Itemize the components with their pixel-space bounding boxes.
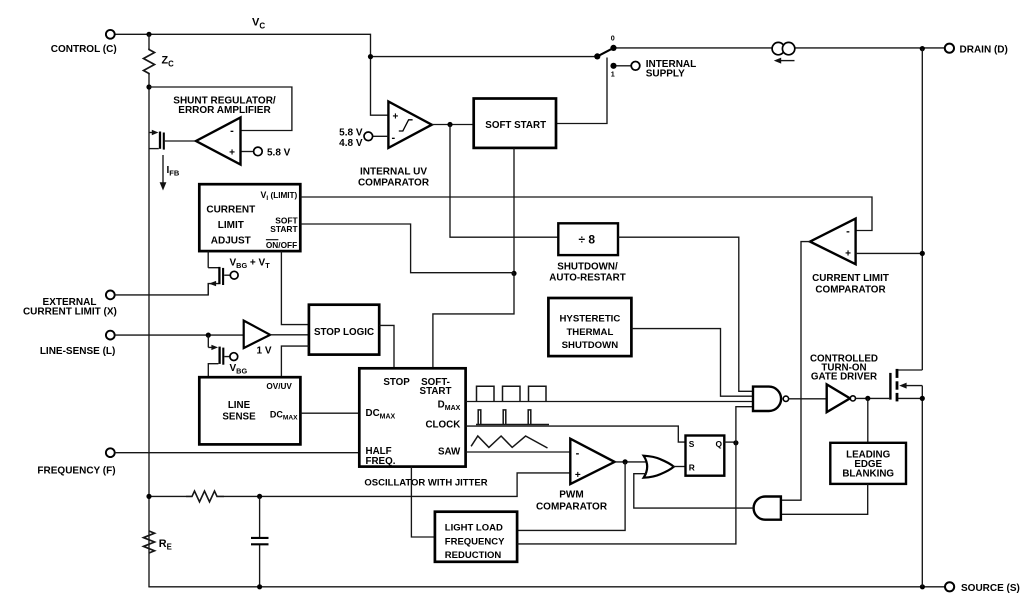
- svg-text:CURRENT LIMIT: CURRENT LIMIT: [812, 273, 889, 284]
- label CURRENT LIMIT COMPARATOR: [812, 273, 889, 295]
- wire SAW output to PWM comparator minus input: [466, 451, 571, 453]
- svg-text:SAW: SAW: [438, 446, 461, 457]
- wire drain vertical line: [921, 49, 923, 587]
- block LIGHT LOAD FREQUENCY REDUCTION: [435, 512, 517, 562]
- svg-text:SOFT START: SOFT START: [485, 120, 546, 131]
- node junction PWM output: [623, 459, 628, 464]
- wire bottom source rail: [148, 586, 945, 588]
- wire gate node down to leading edge blanking: [867, 398, 869, 442]
- svg-text:OV/UV: OV/UV: [266, 382, 292, 391]
- value label 5.8 V / 4.8 V: [339, 127, 363, 149]
- node VC junction above UV comparator: [368, 54, 373, 59]
- wire PWM comparator output to OR gate: [615, 461, 647, 463]
- wire LINE-SENSE to 1V buffer: [115, 334, 244, 336]
- block CURRENT LIMIT ADJUST: [199, 184, 300, 251]
- svg-text:ERROR AMPLIFIER: ERROR AMPLIFIER: [178, 105, 271, 116]
- op-amp PWM comparator: [570, 439, 614, 484]
- svg-text:0: 0: [611, 34, 615, 43]
- wire feedback from junction around text to op-amp minus input: [149, 87, 292, 131]
- wire DCMAX line sense to oscillator: [300, 412, 359, 414]
- svg-text:LIMIT: LIMIT: [218, 220, 244, 231]
- svg-text:STOP LOGIC: STOP LOGIC: [314, 327, 374, 338]
- latch SR flip-flop: [686, 436, 725, 476]
- wire soft-start junction down to oscillator SOFT-START input: [433, 273, 514, 368]
- block STOP LOGIC: [309, 305, 379, 355]
- wire UV comparator output to SOFT START box: [432, 124, 474, 126]
- pin LINE-SENSE (L): [40, 331, 116, 357]
- wire leading edge blanking down to AND gate input: [781, 484, 868, 514]
- node junction MOSFET source: [920, 396, 925, 401]
- wire op-amp plus input to 5.8V reference: [241, 151, 255, 153]
- svg-text:FREQUENCY: FREQUENCY: [445, 536, 505, 547]
- svg-text:INTERNAL UV: INTERNAL UV: [360, 167, 427, 178]
- wire EXTERNAL CURRENT LIMIT to VBG+VT MOSFET source: [115, 284, 209, 295]
- block divide by 8: [558, 223, 618, 255]
- svg-text:FREQUENCY (F): FREQUENCY (F): [37, 466, 115, 477]
- node junction gate drive: [865, 396, 870, 401]
- svg-text:PWM: PWM: [559, 490, 583, 501]
- node junction control line / filter line: [146, 494, 151, 499]
- resistor filter (horizontal): [186, 491, 224, 502]
- svg-text:REDUCTION: REDUCTION: [445, 550, 502, 561]
- resistor ZC: [144, 49, 155, 75]
- svg-text:ON/OFF: ON/OFF: [266, 240, 297, 250]
- block LEADING EDGE BLANKING: [830, 443, 906, 484]
- wire soft start output up to switch pole: [556, 58, 607, 124]
- node junction filter capacitor tap: [257, 494, 262, 499]
- label PWM COMPARATOR: [536, 490, 608, 513]
- wire SOFT START bottom to soft-start junction: [513, 148, 515, 274]
- wire UV output down to divide-by-8 block: [450, 125, 558, 238]
- pin DRAIN (D): [945, 44, 1008, 56]
- svg-text:CLOCK: CLOCK: [425, 420, 460, 431]
- wire CLOCK output to latch S input: [466, 426, 686, 442]
- svg-text:FREQ.: FREQ.: [366, 456, 396, 467]
- svg-text:HYSTERETIC: HYSTERETIC: [560, 313, 621, 324]
- svg-text:SOURCE (S): SOURCE (S): [961, 583, 1020, 594]
- svg-text:SHUTDOWN/: SHUTDOWN/: [557, 261, 618, 272]
- node INTERNAL SUPPLY terminal: [631, 62, 640, 71]
- block LINE SENSE: [199, 377, 300, 444]
- svg-text:SUPPLY: SUPPLY: [646, 69, 685, 80]
- wire bottom filter line from control line to PWM + input: [149, 473, 570, 497]
- wire switch contact 1 to internal supply terminal: [617, 65, 632, 67]
- wire AND gate output to OR gate lower input: [634, 474, 754, 508]
- svg-text:ADJUST: ADJUST: [211, 235, 251, 246]
- node junction MOSFET source to rail: [920, 584, 925, 589]
- wire VI(LIMIT) output to current limit comparator minus input: [300, 197, 872, 231]
- pin SOURCE (S): [945, 582, 1020, 594]
- block HYSTERETIC THERMAL SHUTDOWN: [548, 298, 631, 356]
- svg-text:OSCILLATOR WITH JITTER: OSCILLATOR WITH JITTER: [364, 477, 487, 488]
- svg-text:-: -: [846, 225, 850, 237]
- wire gate driver output to power MOSFET gate: [856, 397, 890, 399]
- wire OR gate output to latch R input: [673, 466, 686, 468]
- svg-text:SHUTDOWN: SHUTDOWN: [562, 340, 619, 351]
- wire divide-by-8 output to NAND gate input 1: [618, 237, 753, 391]
- node junction on LINE-SENSE wire: [206, 333, 211, 338]
- transistor line-sense VBG MOSFET: [208, 335, 237, 377]
- gate OR reset: [644, 456, 674, 478]
- node junction UV output: [447, 122, 452, 127]
- wire thermal shutdown output to NAND gate input 2: [631, 329, 753, 397]
- svg-text:-: -: [392, 132, 396, 144]
- svg-text:4.8 V: 4.8 V: [339, 138, 363, 149]
- pin EXTERNAL CURRENT LIMIT (X): [23, 291, 117, 318]
- svg-text:LINE-SENSE (L): LINE-SENSE (L): [40, 346, 116, 357]
- svg-text:VBG + VT: VBG + VT: [230, 258, 271, 271]
- resistor RE: [144, 531, 155, 553]
- svg-text:5.8 V: 5.8 V: [339, 127, 363, 138]
- svg-text:1: 1: [611, 70, 615, 79]
- svg-text:COMPARATOR: COMPARATOR: [536, 501, 608, 512]
- wire FREQUENCY to oscillator HALF FREQ input: [115, 452, 360, 454]
- svg-text:+: +: [393, 112, 399, 123]
- wire IFB current arrow: [160, 155, 167, 191]
- svg-text:COMPARATOR: COMPARATOR: [358, 177, 430, 188]
- wire current limit comparator output down to blanking AND gate: [781, 242, 810, 501]
- buffer controlled turn-on gate driver: [827, 384, 856, 412]
- svg-text:START: START: [420, 386, 452, 397]
- wire DMAX output to NAND gate: [466, 401, 753, 403]
- gate AND blanking (mirrored): [754, 497, 781, 520]
- block OSCILLATOR WITH JITTER: [359, 368, 465, 467]
- node junction drain rail: [920, 46, 925, 51]
- waveform square wave DMAX: [477, 386, 547, 401]
- wire OV/UV from line sense up to stop logic: [281, 346, 309, 377]
- node VC junction at ZC top: [146, 32, 151, 37]
- svg-text:START: START: [270, 224, 298, 234]
- svg-text:Q: Q: [715, 439, 722, 449]
- svg-text:BLANKING: BLANKING: [842, 469, 894, 480]
- svg-text:-: -: [576, 447, 580, 459]
- wire drain rail from switch to DRAIN pin: [616, 47, 945, 49]
- label INTERNAL SUPPLY: [646, 59, 697, 80]
- switch internal supply selector: [594, 34, 616, 79]
- transistor VBG+VT MOSFET: [208, 251, 238, 295]
- svg-text:LINE: LINE: [228, 400, 251, 411]
- transistor feedback MOSFET (shunt regulator): [149, 130, 164, 150]
- pin CONTROL (C): [51, 30, 117, 55]
- node 5.8V reference terminal: [254, 147, 263, 156]
- wire NAND output to gate driver buffer: [789, 398, 827, 400]
- svg-text:+: +: [575, 470, 581, 481]
- wire ON/OFF output down to stop logic: [281, 251, 309, 325]
- svg-text:CONTROL (C): CONTROL (C): [51, 44, 117, 55]
- svg-text:LIGHT LOAD: LIGHT LOAD: [445, 522, 503, 533]
- label CONTROLLED TURN-ON GATE DRIVER: [810, 354, 878, 383]
- wire VC top rail from CONTROL pin to switch pole: [115, 34, 596, 56]
- transistor power MOSFET output: [890, 369, 922, 402]
- svg-text:AUTO-RESTART: AUTO-RESTART: [549, 273, 625, 284]
- wire Q up to NAND gate input 4: [736, 407, 753, 443]
- svg-text:5.8 V: 5.8 V: [267, 147, 291, 158]
- svg-text:R: R: [689, 463, 695, 473]
- wire op-amp output to feedback MOSFET gate: [165, 140, 196, 142]
- wire latch Q output: [724, 441, 736, 443]
- svg-text:GATE DRIVER: GATE DRIVER: [811, 372, 877, 383]
- svg-text:÷ 8: ÷ 8: [579, 232, 596, 246]
- svg-text:CURRENT: CURRENT: [206, 204, 255, 215]
- node junction Q output: [733, 440, 738, 445]
- node junction plus input on drain line: [920, 251, 925, 256]
- capacitor filter: [251, 496, 269, 586]
- svg-text:COMPARATOR: COMPARATOR: [815, 284, 885, 295]
- wire current limit comparator plus input to drain line: [856, 252, 923, 254]
- svg-text:STOP: STOP: [383, 377, 410, 388]
- wire Q down to light load frequency reduction input: [517, 443, 736, 544]
- current source IC tap (two circles): [772, 42, 795, 54]
- wire VC branch down to UV comparator + input: [371, 57, 389, 116]
- svg-text:S: S: [689, 439, 695, 449]
- wire CONTROL vertical main line down left side: [148, 34, 150, 587]
- label INTERNAL UV COMPARATOR: [358, 167, 430, 189]
- block SOFT START: [474, 99, 556, 148]
- wire UV comparator minus input to threshold terminal: [372, 135, 388, 137]
- waveform sawtooth: [471, 436, 547, 448]
- svg-text:+: +: [229, 147, 235, 158]
- buffer 1V line-sense threshold: [244, 321, 272, 357]
- current source direction arrow: [774, 58, 795, 64]
- pin FREQUENCY (F): [37, 448, 115, 476]
- node junction at shunt regulator tap: [146, 84, 151, 89]
- svg-text:+: +: [845, 248, 851, 259]
- wire 1V buffer output to stop logic: [270, 334, 309, 336]
- svg-text:-: -: [230, 125, 234, 137]
- svg-text:DRAIN (D): DRAIN (D): [960, 44, 1008, 55]
- svg-text:THERMAL: THERMAL: [566, 327, 613, 338]
- waveform clock pulses: [476, 410, 549, 425]
- node UV threshold terminal: [364, 132, 373, 141]
- node junction capacitor to rail: [257, 584, 262, 589]
- node junction soft-start net: [511, 271, 516, 276]
- svg-text:SENSE: SENSE: [222, 411, 256, 422]
- wire oscillator bottom to light load frequency reduction: [411, 467, 435, 537]
- op-amp current limit comparator: [810, 219, 856, 265]
- wire STOP LOGIC output to oscillator STOP input: [379, 325, 394, 368]
- svg-text:CURRENT LIMIT (X): CURRENT LIMIT (X): [23, 306, 117, 317]
- svg-text:1 V: 1 V: [257, 346, 272, 357]
- label SHUNT REGULATOR / ERROR AMPLIFIER: [173, 95, 276, 116]
- gate NAND driver logic: [753, 387, 789, 411]
- label SHUTDOWN / AUTO-RESTART: [549, 261, 625, 283]
- wire PWM output junction down to light load block: [517, 462, 625, 531]
- wire SOFT START adjust output to soft-start junction: [300, 224, 514, 273]
- op-amp internal UV comparator: [388, 102, 431, 148]
- op-amp shunt regulator / error amplifier: [196, 118, 241, 165]
